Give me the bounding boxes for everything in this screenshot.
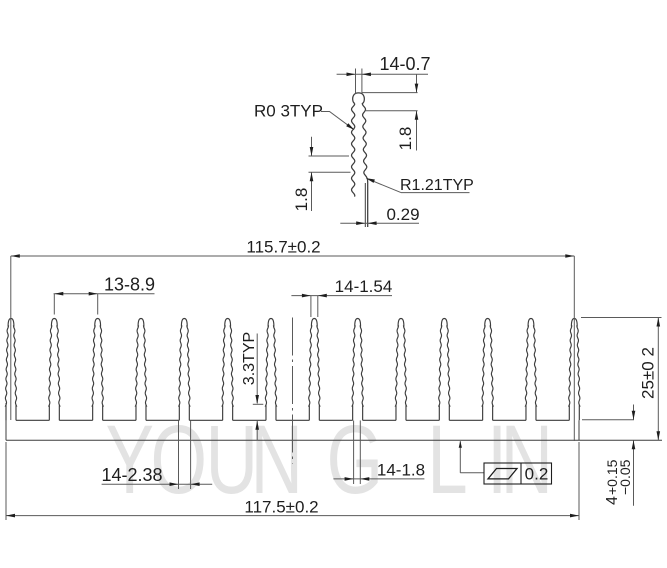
svg-text:25±0 2: 25±0 2 (639, 347, 658, 399)
svg-text:14-1.54: 14-1.54 (335, 277, 393, 296)
svg-text:1.8: 1.8 (292, 188, 311, 212)
svg-text:13-8.9: 13-8.9 (104, 275, 155, 295)
svg-text:−0.05: −0.05 (617, 459, 633, 495)
svg-text:14-0.7: 14-0.7 (379, 54, 430, 74)
svg-text:4: 4 (604, 496, 621, 505)
svg-text:14-2.38: 14-2.38 (101, 465, 162, 485)
svg-text:14-1.8: 14-1.8 (377, 461, 425, 480)
svg-text:0.29: 0.29 (386, 205, 419, 224)
svg-text:R1.21TYP: R1.21TYP (400, 177, 474, 194)
svg-text:3.3TYP: 3.3TYP (241, 332, 258, 385)
svg-text:LIN: LIN (427, 406, 553, 515)
svg-text:0.2: 0.2 (525, 465, 549, 484)
svg-text:117.5±0.2: 117.5±0.2 (244, 498, 318, 517)
svg-text:R0 3TYP: R0 3TYP (254, 102, 323, 121)
svg-text:115.7±0.2: 115.7±0.2 (246, 238, 320, 257)
svg-text:1.8: 1.8 (396, 127, 415, 151)
